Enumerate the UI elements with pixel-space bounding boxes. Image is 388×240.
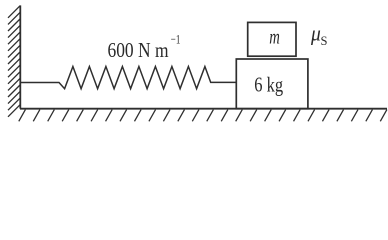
svg-text:600 N m: 600 N m: [108, 38, 169, 62]
svg-text:μ: μ: [310, 20, 321, 45]
svg-text:6 kg: 6 kg: [254, 73, 283, 97]
svg-text:S: S: [321, 34, 328, 48]
svg-text:m: m: [269, 25, 280, 49]
svg-text:−1: −1: [171, 31, 181, 46]
